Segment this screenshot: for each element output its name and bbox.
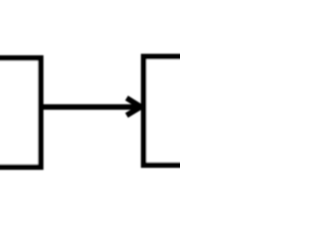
arrowhead (open vee at B2 left edge) [127,98,141,115]
flowchart: two process boxes joined by an arrow [0,0,180,180]
box B1 (left process box, clipped by left image edge) [0,58,41,167]
wire (arrow shaft from B1 to B2) [41,104,141,110]
box B2 (right process box, clipped by right image edge) [144,57,204,166]
